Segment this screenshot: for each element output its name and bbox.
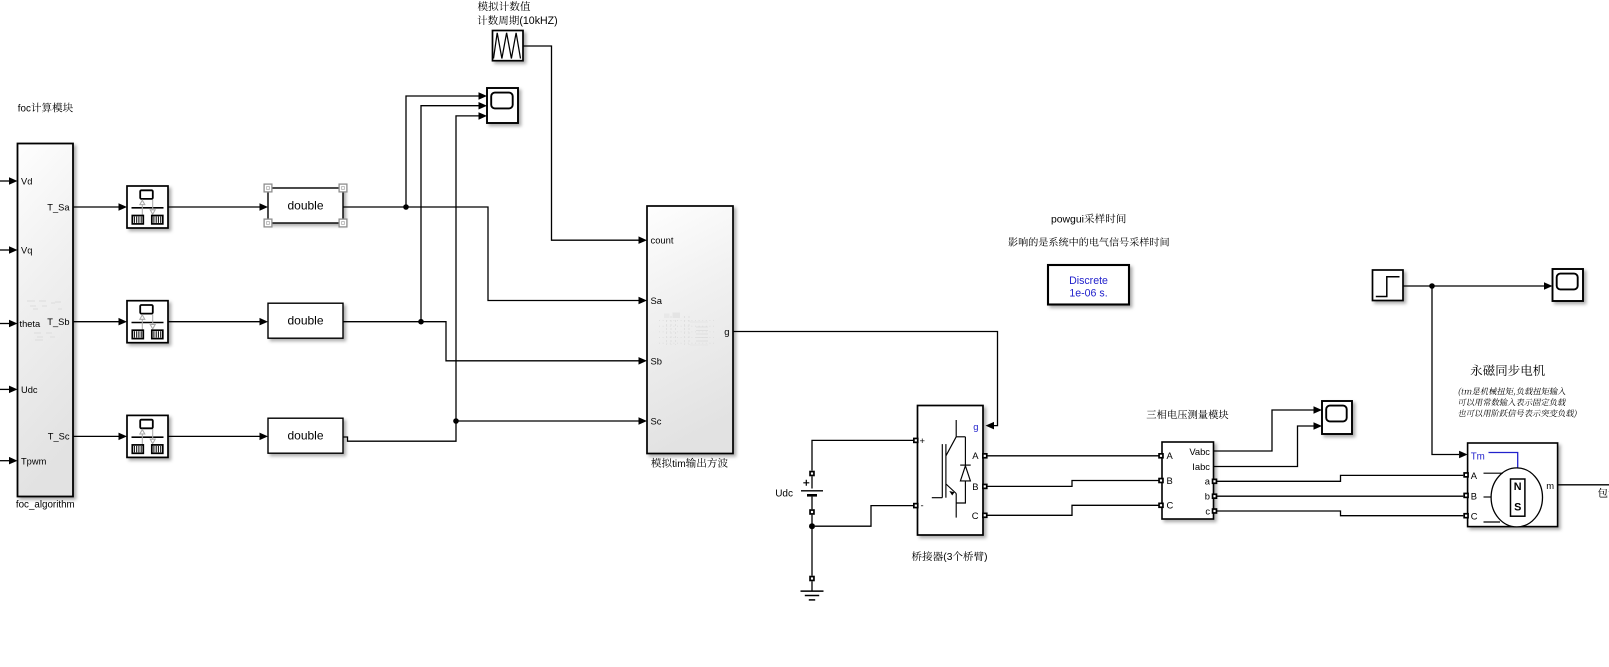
svg-text:Vd: Vd: [21, 177, 32, 187]
scope2 (2 inputs): [1322, 401, 1352, 434]
wire junction1 to scope1 input1: [406, 92, 487, 207]
wire bridge A to measurement A: [988, 455, 1159, 457]
junction node step: [1429, 283, 1435, 289]
svg-text:+: +: [920, 435, 926, 446]
svg-text:foc_algorithm: foc_algorithm: [16, 499, 75, 510]
wire converter3 to double3: [168, 433, 268, 441]
svg-text:foc: foc: [18, 104, 31, 115]
signal converter block U3: [127, 415, 168, 457]
motor internal Tm wire: [1489, 453, 1518, 468]
annotation: foc计算模块: [18, 103, 73, 115]
wire Vabc to scope2: [1214, 406, 1323, 451]
wire step to junction to scope3: [1403, 282, 1553, 290]
wire double1 to Sa with junction: [343, 207, 647, 304]
svg-text:Iabc: Iabc: [1192, 461, 1210, 472]
svg-text:): ): [984, 552, 987, 563]
svg-text:B: B: [972, 481, 978, 492]
wire double3 to Sc with junction: [343, 417, 647, 441]
svg-text:a: a: [1205, 476, 1211, 487]
wire input Vq: [0, 246, 18, 254]
step source block: [1373, 270, 1404, 301]
svg-text:Sb: Sb: [651, 356, 662, 367]
svg-text:Tpwm: Tpwm: [21, 457, 47, 467]
wire T_Sc foc to converter3: [73, 433, 127, 441]
subsystem watermark chart: [659, 313, 714, 346]
svg-text:theta: theta: [20, 319, 42, 329]
annotation powgui采样时间: [1051, 214, 1126, 226]
junction node dc bus: [809, 523, 815, 529]
data type conversion block double2: [268, 303, 343, 338]
wire junction3 to scope1 input3: [456, 112, 487, 421]
wire a to motor A: [1217, 475, 1463, 481]
svg-text:c: c: [1205, 505, 1210, 516]
svg-text:Udc: Udc: [21, 385, 38, 395]
wire junction to ground: [811, 560, 813, 576]
repeating sequence source (triangle wave): [493, 31, 524, 61]
wire Iabc to scope2: [1214, 422, 1323, 466]
svg-text:C: C: [972, 510, 979, 521]
svg-text:double: double: [287, 429, 323, 443]
wire input Vd: [0, 177, 18, 185]
motor port stubs: [1463, 472, 1469, 518]
scope3 (1 input): [1553, 269, 1584, 301]
motor rotor circle: [1491, 468, 1542, 527]
powergui block Discrete: [1048, 265, 1129, 305]
svg-text:T_Sb: T_Sb: [47, 317, 69, 327]
junction node row2: [418, 319, 424, 325]
svg-text:m: m: [1546, 480, 1554, 491]
svg-text:B: B: [1167, 475, 1173, 486]
svg-text:count: count: [651, 235, 674, 246]
svg-text:double: double: [287, 314, 323, 328]
wire double2 to Sb with junction: [343, 322, 647, 365]
svg-text:tim: tim: [672, 459, 686, 470]
svg-text:(10kHZ): (10kHZ): [519, 15, 557, 27]
junction node row3: [453, 418, 459, 424]
wire source to count: [523, 46, 647, 244]
svg-text:T_Sc: T_Sc: [48, 432, 70, 442]
annotation 三相电压测量模块: [1147, 410, 1229, 420]
svg-text:T_Sa: T_Sa: [47, 203, 70, 213]
junction node row1: [403, 204, 409, 210]
wire bridge minus return: [815, 506, 914, 527]
three-phase VI measurement block: [1162, 442, 1214, 519]
wire input Udc: [0, 386, 18, 394]
svg-text:Tm: Tm: [1471, 452, 1485, 463]
motor stator lead C: [1484, 521, 1501, 523]
bridge port stubs: [913, 438, 988, 518]
svg-text:A: A: [1471, 470, 1478, 481]
svg-text:A: A: [972, 450, 979, 461]
svg-text:B: B: [1471, 491, 1477, 502]
wire source bottom to junction: [811, 515, 813, 560]
svg-text:(3: (3: [943, 552, 952, 563]
svg-text:b: b: [1205, 491, 1210, 502]
universal bridge block: [918, 406, 984, 536]
wire bridge C to measurement C: [988, 505, 1159, 515]
wire input theta: [0, 320, 18, 327]
wire junction to motor Tm: [1432, 286, 1468, 458]
foc_algorithm watermark: [27, 301, 62, 340]
wire T_Sa foc to converter1: [73, 203, 127, 211]
label 桥接器(3个桥臂): [912, 551, 988, 563]
wire converter1 to double1: [168, 203, 268, 211]
motor stator lead A: [1484, 472, 1503, 474]
subsystem foc_algorithm: [18, 144, 74, 497]
svg-text:1e-06 s.: 1e-06 s.: [1069, 288, 1107, 300]
svg-text:powgui: powgui: [1051, 215, 1084, 226]
signal converter block U1: [127, 186, 168, 228]
subsystem label 模拟tim输出方波: [651, 458, 728, 470]
svg-text:A: A: [1167, 450, 1174, 461]
PMSM motor block: [1468, 443, 1558, 527]
wire input Tpwm: [0, 457, 18, 465]
data type conversion block double3: [268, 418, 343, 453]
wire motor m output: [1558, 484, 1609, 486]
wire converter2 to double2: [168, 318, 268, 326]
signal converter block U2: [127, 301, 168, 343]
svg-text:g: g: [724, 326, 729, 337]
motor stator lead B: [1484, 496, 1492, 498]
svg-text:Vq: Vq: [21, 246, 32, 256]
svg-text:N: N: [1514, 481, 1522, 493]
selection handles on double1: [264, 184, 347, 227]
svg-text:g: g: [973, 421, 978, 432]
ground block: [801, 576, 824, 600]
wire c to motor C: [1217, 511, 1463, 516]
scope1 (3 inputs): [487, 88, 518, 123]
svg-text:C: C: [1471, 511, 1478, 522]
svg-text:Vabc: Vabc: [1189, 446, 1210, 457]
measurement port stubs: [1158, 453, 1217, 514]
annotation: 模拟计数值 / 计数周期(10kHZ): [478, 1, 558, 27]
svg-text:-: -: [921, 500, 924, 511]
subsystem 模拟tim输出方波: [647, 206, 733, 454]
wire g output to bridge gate: [733, 332, 998, 430]
wire b to motor B: [1217, 495, 1463, 497]
annotation 永磁同步电机: [1471, 365, 1545, 377]
wire bridge plus to source: [812, 440, 914, 470]
motor NS magnet: [1511, 479, 1525, 516]
bridge IGBT/diode icon: [932, 420, 971, 518]
DC voltage source Udc: [801, 471, 823, 515]
annotation motor note italic: [1457, 387, 1577, 418]
wire T_Sb foc to converter2: [73, 318, 127, 326]
wire bridge B to measurement B: [988, 481, 1159, 487]
annotation 包含 (clipped): [1598, 488, 1609, 498]
svg-text:C: C: [1167, 500, 1174, 511]
annotation 影响的是系统中的电气信号采样时间: [1008, 237, 1169, 246]
svg-text:Sa: Sa: [651, 295, 663, 306]
svg-text:Discrete: Discrete: [1069, 275, 1108, 287]
svg-text:S: S: [1514, 502, 1521, 514]
svg-text:double: double: [287, 199, 323, 213]
svg-text:Sc: Sc: [651, 415, 662, 426]
data type conversion block double1: [268, 188, 343, 223]
svg-text:Udc: Udc: [775, 489, 793, 500]
wire junction2 to scope1 input2: [421, 102, 487, 322]
